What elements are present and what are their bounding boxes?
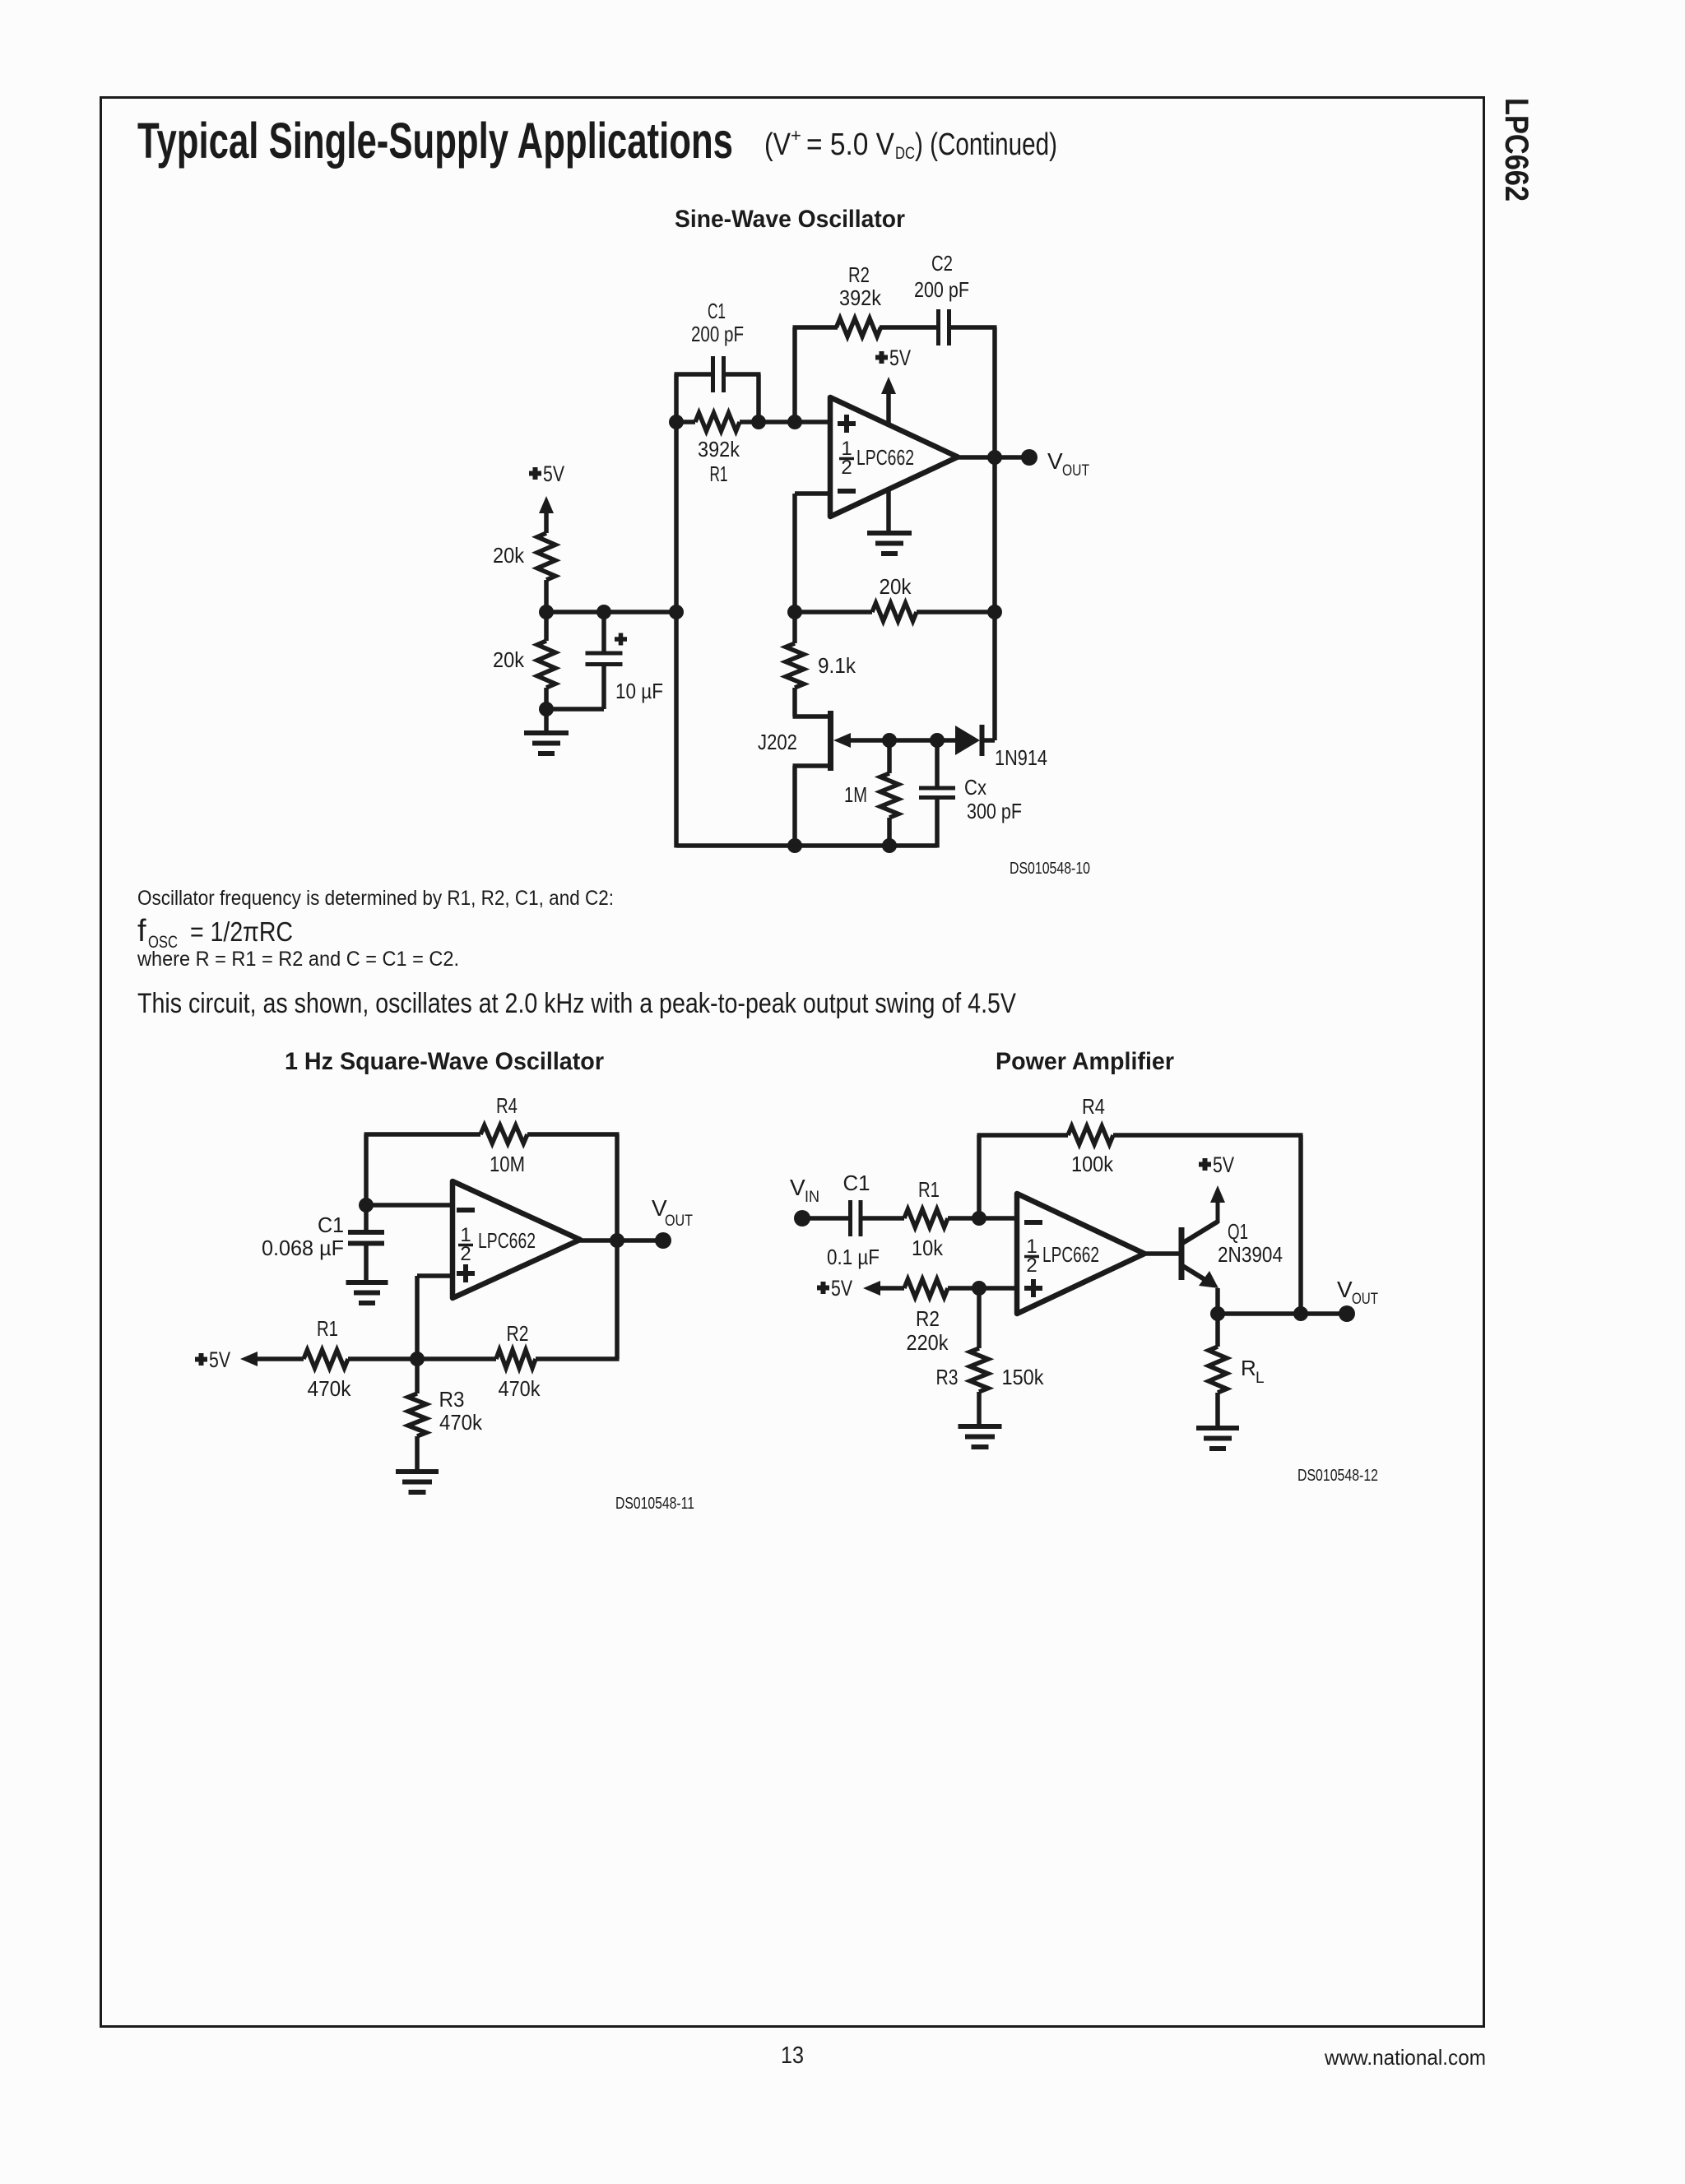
svg-text:Power Amplifier: Power Amplifier (996, 1048, 1174, 1075)
svg-text:300 pF: 300 pF (967, 799, 1022, 823)
svg-text:(V: (V (764, 128, 791, 162)
node noninverting junction (972, 1281, 986, 1296)
svg-text:= 1/2πRC: = 1/2πRC (190, 916, 293, 947)
svg-text:LPC662: LPC662 (1498, 98, 1534, 202)
svg-text:10k: 10k (912, 1236, 944, 1260)
page border frame (101, 98, 1484, 2027)
svg-text:2: 2 (841, 457, 852, 479)
wire output row (1218, 1311, 1347, 1316)
ground R3 (959, 1424, 1002, 1429)
resistor R3 150k (977, 1288, 982, 1348)
node A junction dots (669, 415, 684, 429)
svg-text:Typical Single-Supply Applicat: Typical Single-Supply Applications (137, 113, 733, 169)
svg-text:OUT: OUT (1352, 1291, 1378, 1308)
wire +5V to R2 (876, 1286, 904, 1291)
resistor R4 10M (480, 1125, 527, 1143)
svg-text:OUT: OUT (1062, 462, 1089, 480)
resistor 20k upper (537, 533, 555, 580)
node R3 junction (410, 1352, 425, 1366)
wire input (802, 1216, 848, 1221)
svg-text:OUT: OUT (665, 1213, 693, 1230)
svg-text:0.068 µF: 0.068 µF (262, 1236, 344, 1260)
power +5V arrow left (195, 1357, 207, 1362)
svg-text:R3: R3 (439, 1387, 465, 1412)
svg-text:2: 2 (460, 1243, 471, 1265)
wire bottom rail (676, 843, 937, 848)
svg-text:V: V (1047, 448, 1063, 474)
wire left riser (364, 1134, 369, 1205)
wire divider rail (546, 610, 679, 614)
capacitor C1 0.1 uF (848, 1200, 852, 1236)
svg-text:5V: 5V (889, 345, 911, 370)
svg-text:1N914: 1N914 (995, 745, 1047, 770)
svg-text:470k: 470k (308, 1376, 352, 1401)
resistor R2 470k (496, 1350, 536, 1368)
ground R3 (396, 1469, 439, 1474)
resistor R2 392k (837, 318, 881, 336)
svg-text:V: V (790, 1175, 805, 1200)
svg-text:20k: 20k (493, 543, 525, 568)
resistor 20k feedback (872, 603, 917, 621)
node inverting junction (359, 1198, 374, 1213)
resistor RL (1215, 1314, 1220, 1347)
svg-text:L: L (1256, 1370, 1265, 1387)
svg-text:) (Continued): ) (Continued) (915, 128, 1057, 162)
resistor 1M (887, 740, 892, 773)
svg-text:R2: R2 (507, 1321, 529, 1346)
svg-text:f: f (137, 914, 146, 948)
wire bottom rail (253, 1356, 304, 1361)
resistor R2 220k (904, 1279, 948, 1297)
wire inverting-node row (676, 420, 695, 424)
svg-text:Q1: Q1 (1228, 1219, 1248, 1244)
svg-text:This circuit, as shown, oscill: This circuit, as shown, oscillates at 2.… (137, 988, 1016, 1019)
svg-text:9.1k: 9.1k (818, 653, 856, 678)
svg-text:5V: 5V (543, 461, 564, 486)
svg-text:5V: 5V (209, 1347, 230, 1372)
svg-text:0.1 µF: 0.1 µF (827, 1245, 880, 1269)
svg-text:R1: R1 (918, 1177, 940, 1202)
capacitor C1 200 pF (711, 356, 715, 392)
power +5V divider (529, 471, 541, 476)
wire inverting input (795, 491, 830, 496)
node gate junction dots (882, 733, 897, 748)
wire right vertical (1298, 1135, 1303, 1314)
ground C1 (346, 1280, 388, 1285)
svg-text:C1: C1 (843, 1171, 870, 1195)
svg-text:LPC662: LPC662 (856, 445, 914, 470)
svg-text:470k: 470k (499, 1376, 541, 1401)
svg-text:R3: R3 (936, 1365, 959, 1389)
transistor Q1 2N3904 (1179, 1227, 1185, 1280)
wire right vertical (615, 1134, 620, 1359)
svg-text:V: V (1337, 1277, 1353, 1302)
capacitor C1 0.068 uF (364, 1205, 369, 1232)
svg-text:IN: IN (805, 1189, 819, 1206)
wire inverting input (366, 1203, 453, 1208)
svg-text:470k: 470k (439, 1410, 483, 1435)
svg-text:150k: 150k (1002, 1365, 1045, 1389)
svg-text:DS010548-10: DS010548-10 (1010, 860, 1090, 878)
wire C1 branch right riser (756, 374, 761, 424)
power +5V op-amp supply (886, 388, 891, 424)
resistor R4 100k (1068, 1126, 1113, 1144)
op-amp U1 1/2 LPC662 (830, 397, 958, 517)
wire right vertical (C2 to output, to diode) (992, 327, 997, 740)
svg-text:220k: 220k (907, 1330, 949, 1355)
svg-text:LPC662: LPC662 (478, 1228, 536, 1253)
emitter with arrow (1181, 1265, 1209, 1282)
svg-text:1M: 1M (844, 782, 867, 807)
wire C1 branch top left (675, 372, 712, 377)
ground divider (544, 709, 549, 733)
svg-text:R4: R4 (1082, 1094, 1105, 1119)
svg-text:R4: R4 (496, 1093, 518, 1118)
wire feedback riser (977, 1135, 982, 1218)
svg-text:392k: 392k (698, 437, 740, 461)
resistor 9.1k (792, 612, 797, 643)
svg-text:R1: R1 (317, 1316, 338, 1341)
svg-text:20k: 20k (493, 647, 525, 672)
wire op-amp output to base (1144, 1251, 1181, 1256)
svg-text:10M: 10M (490, 1152, 525, 1176)
svg-text:J202: J202 (758, 730, 797, 754)
svg-text:5V: 5V (831, 1276, 852, 1301)
svg-text:where R = R1 = R2 and C = C1 =: where R = R1 = R2 and C = C1 = C2. (137, 948, 459, 971)
svg-text:DS010548-11: DS010548-11 (615, 1495, 694, 1513)
ground op-amp supply pin (886, 489, 891, 531)
wire noninverting input (417, 1273, 453, 1278)
gate arrow of J202 (833, 733, 851, 748)
terminal VIN (794, 1210, 810, 1226)
svg-text:200 pF: 200 pF (914, 277, 969, 302)
ground RL (1196, 1426, 1239, 1430)
node output junction (610, 1233, 624, 1248)
svg-text:Sine-Wave Oscillator: Sine-Wave Oscillator (675, 206, 905, 233)
diode 1N914 (955, 726, 980, 755)
svg-text:= 5.0 V: = 5.0 V (806, 128, 895, 162)
svg-text:Cx: Cx (964, 775, 986, 800)
node output junction (987, 450, 1002, 465)
wire output (580, 1238, 663, 1243)
node divider bottom junction (539, 702, 554, 716)
wire feedback riser (792, 327, 797, 422)
svg-text:2N3904: 2N3904 (1218, 1242, 1283, 1267)
collector +5V arrow (1210, 1185, 1225, 1203)
node divider mid junction (539, 605, 554, 619)
svg-text:R2: R2 (916, 1306, 940, 1331)
capacitor Cx 300 pF (935, 740, 940, 788)
svg-text:200 pF: 200 pF (691, 322, 744, 346)
wire feedback 20k rail (795, 610, 872, 614)
terminal VOUT (1339, 1305, 1355, 1322)
svg-text:C1: C1 (708, 299, 726, 323)
svg-text:100k: 100k (1071, 1152, 1114, 1176)
svg-text:R: R (1241, 1356, 1256, 1380)
transistor J202 JFET (793, 714, 831, 719)
svg-text:R1: R1 (710, 461, 728, 486)
resistor R1 470k (304, 1350, 348, 1368)
svg-text:www.national.com: www.national.com (1324, 2045, 1486, 2070)
power +5V arrow left (817, 1286, 829, 1291)
svg-text:13: 13 (781, 2043, 804, 2069)
wire C1 branch top right (726, 372, 761, 377)
wire R1 to inverting input (948, 1216, 1017, 1221)
svg-text:DC: DC (895, 144, 915, 163)
node inverting junction (972, 1211, 986, 1226)
capacitor 10 uF (601, 612, 606, 651)
wire top feedback run (977, 1133, 1069, 1138)
wire top feedback run (364, 1132, 481, 1137)
capacitor C2 200 pF (936, 309, 940, 345)
resistor R3 470k (415, 1359, 420, 1393)
wire left vertical bus (674, 422, 679, 848)
svg-text:LPC662: LPC662 (1042, 1242, 1099, 1267)
svg-text:+: + (791, 125, 801, 146)
svg-text:C1: C1 (318, 1213, 344, 1237)
svg-text:392k: 392k (839, 285, 882, 310)
svg-text:C2: C2 (931, 251, 953, 276)
svg-text:R2: R2 (848, 262, 870, 287)
svg-text:Oscillator frequency is determ: Oscillator frequency is determined by R1… (137, 887, 614, 910)
op-amp U2 1/2 LPC662 (453, 1181, 580, 1298)
svg-text:DS010548-12: DS010548-12 (1297, 1467, 1378, 1485)
svg-text:20k: 20k (880, 574, 912, 599)
wire C1 branch left riser (674, 374, 679, 424)
svg-text:2: 2 (1026, 1254, 1037, 1277)
wire output (958, 455, 1029, 460)
terminal VOUT (655, 1232, 671, 1249)
wire R2 to noninverting input (948, 1286, 1017, 1291)
svg-text:10 µF: 10 µF (615, 679, 663, 703)
resistor R1 10k (904, 1209, 948, 1227)
wire C1 to R1 (862, 1216, 904, 1221)
resistor R1 392k (695, 413, 740, 431)
terminal VOUT (1021, 449, 1037, 466)
node emitter junction (1210, 1306, 1225, 1321)
op-amp U3 1/2 LPC662 (1017, 1194, 1144, 1314)
wire feedback top run (793, 325, 838, 330)
resistor 20k lower (544, 612, 549, 641)
svg-text:1 Hz Square-Wave Oscillator: 1 Hz Square-Wave Oscillator (285, 1048, 604, 1075)
svg-text:5V: 5V (1213, 1152, 1234, 1177)
